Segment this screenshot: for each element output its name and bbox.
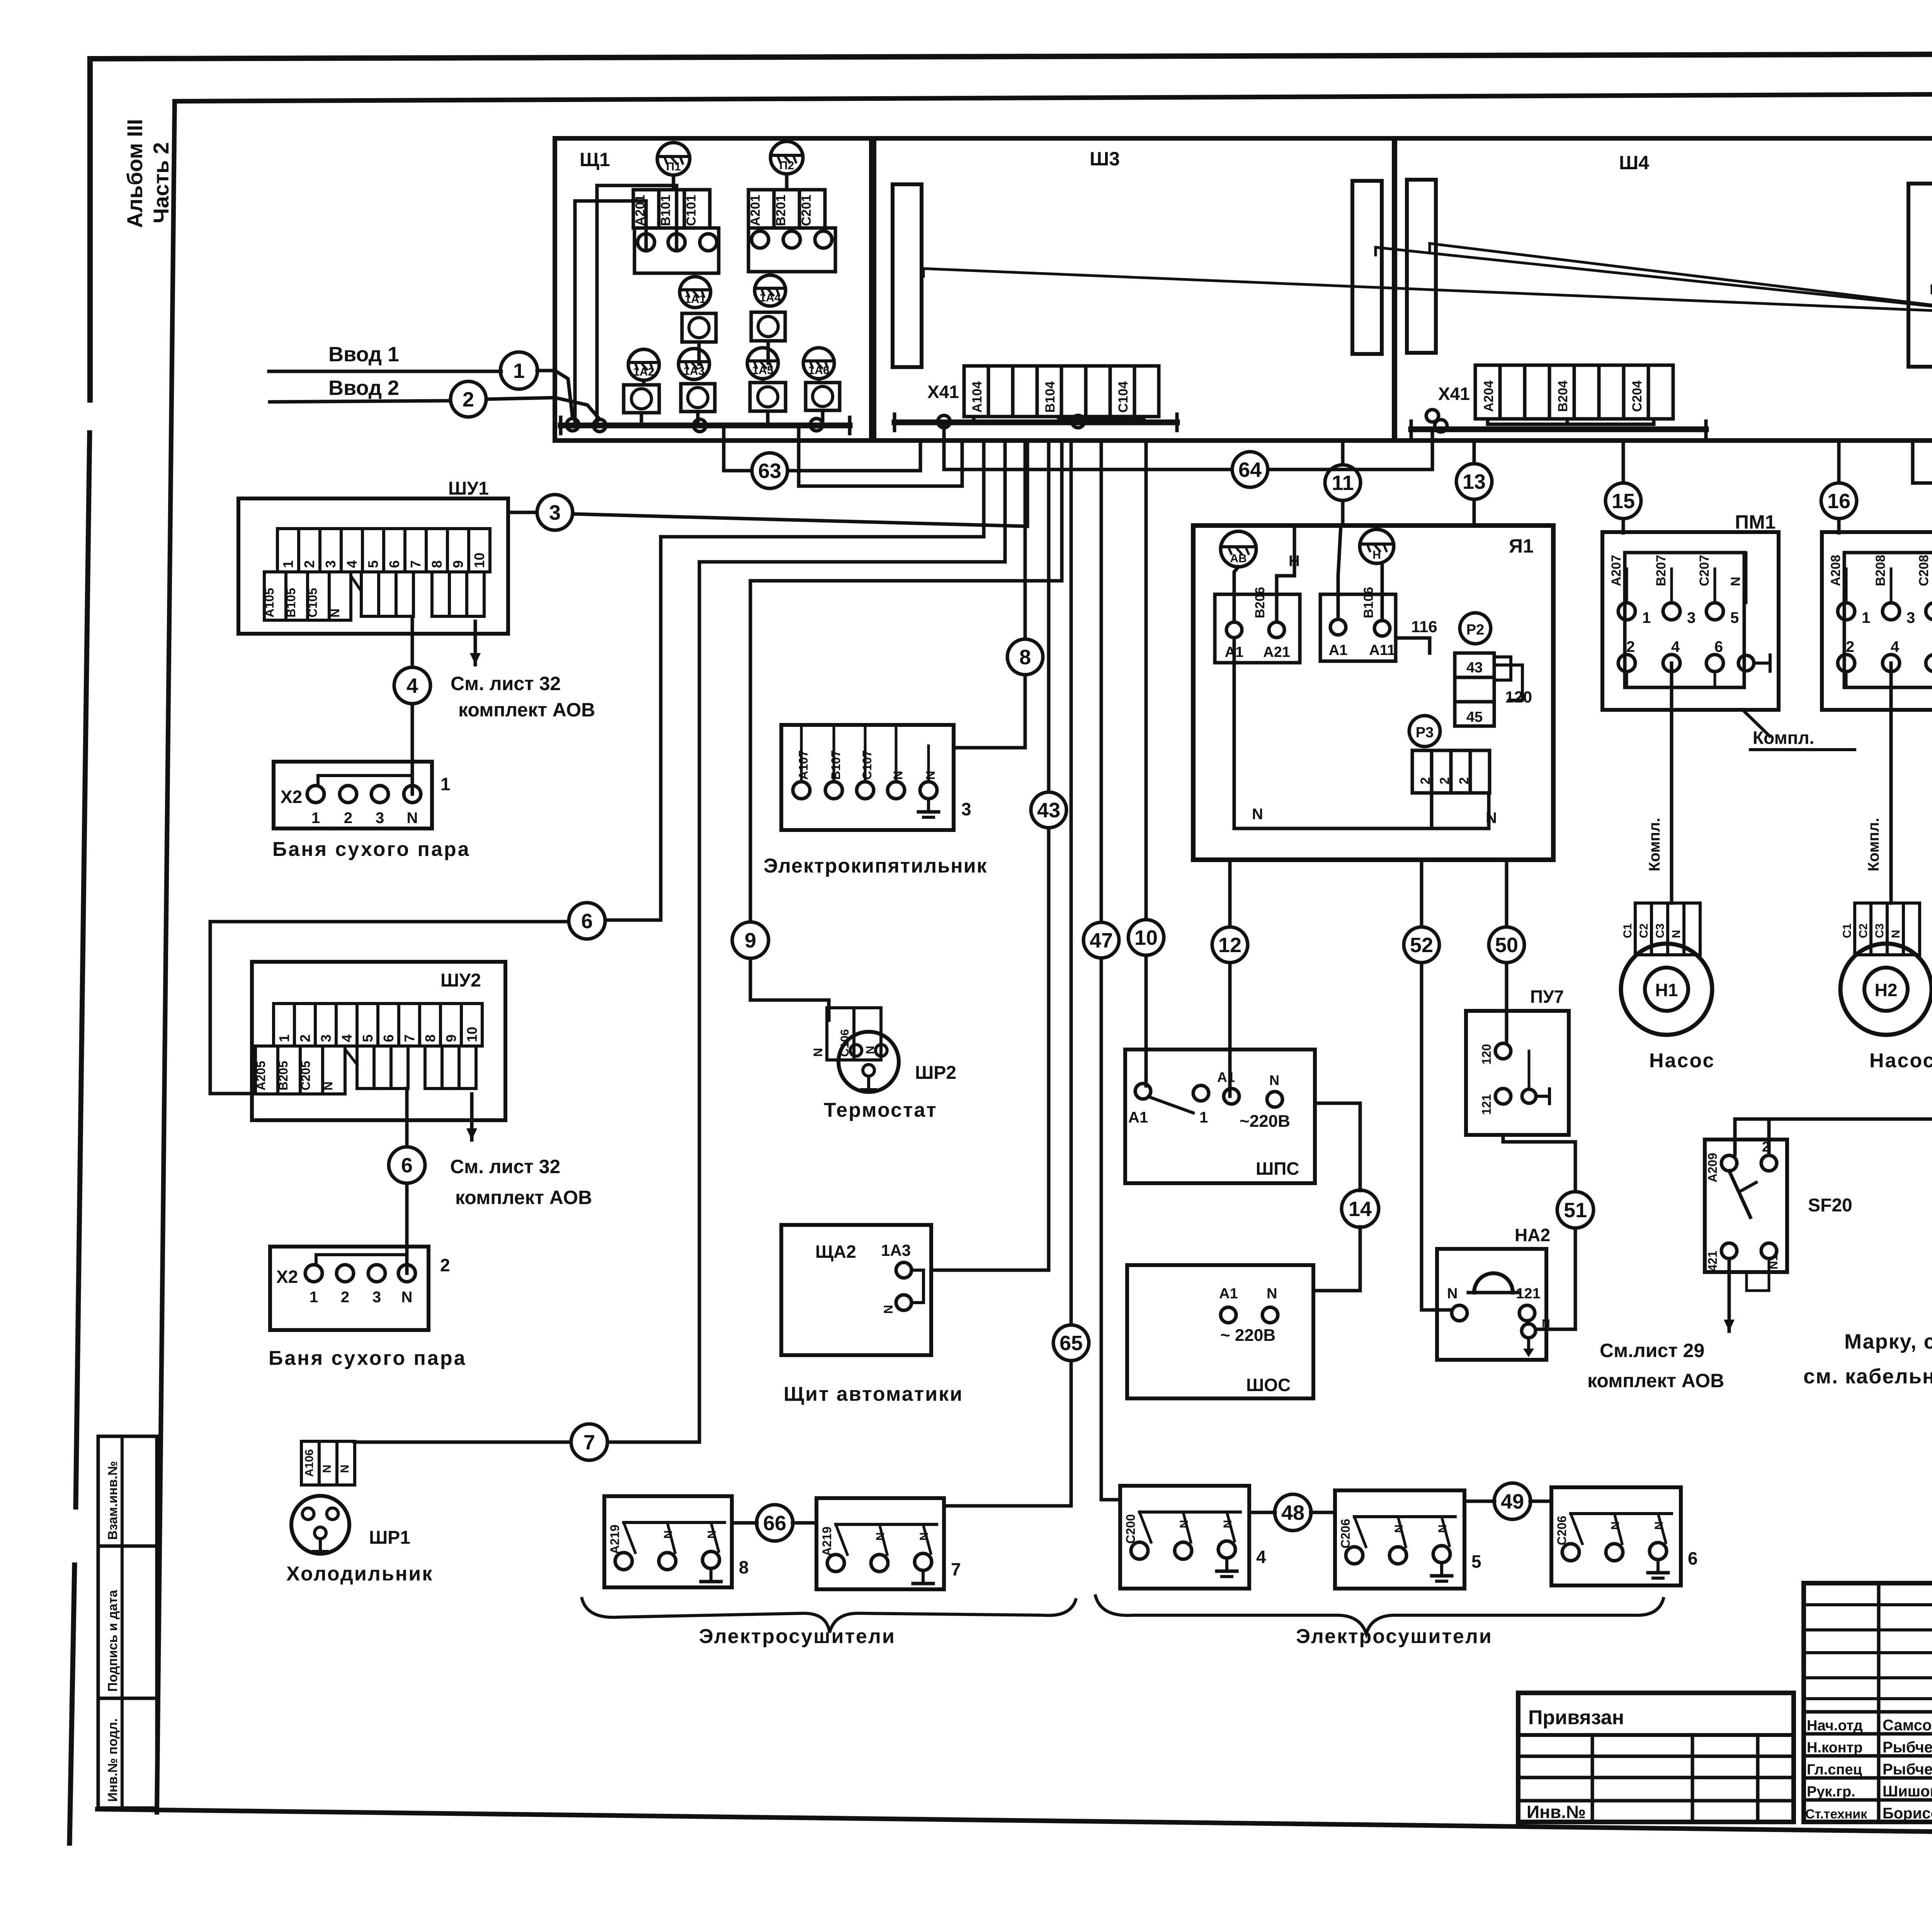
svg-text:Рыбченко: Рыбченко <box>1883 1739 1932 1756</box>
connector Х2 Баня-1 <box>274 762 451 828</box>
terminal block column right of Ш4 <box>1908 184 1932 367</box>
svg-text:2: 2 <box>1626 638 1635 655</box>
svg-text:комплект АОВ: комплект АОВ <box>455 1187 592 1208</box>
fuse 1А3 in Щ1 <box>679 349 709 379</box>
busbar N of Щ1 <box>561 417 850 434</box>
svg-text:В206: В206 <box>1253 587 1267 618</box>
svg-text:2: 2 <box>1457 777 1471 784</box>
svg-text:45: 45 <box>1466 709 1483 725</box>
dryer box 5 <box>1335 1490 1481 1589</box>
svg-text:А1: А1 <box>1217 1069 1235 1085</box>
svg-text:66: 66 <box>763 1512 786 1535</box>
note Марку сечение <box>1803 1330 1932 1388</box>
svg-text:Х41: Х41 <box>927 382 959 402</box>
svg-text:4: 4 <box>1256 1547 1266 1567</box>
connector Х2 Баня-2 <box>270 1247 450 1330</box>
cabinet ШПС box <box>1125 1050 1315 1183</box>
svg-text:Н.контр: Н.контр <box>1807 1740 1863 1756</box>
relay А2 square c <box>624 385 659 413</box>
trunk wire row 1 <box>661 441 984 537</box>
wire ШУ1 to trunk via marker 3 <box>508 441 1027 526</box>
wire Я1 to ШПС via marker 12 <box>1228 860 1232 1096</box>
cabinet ШУ2 enclosure <box>252 962 505 1120</box>
svg-text:3: 3 <box>318 1034 334 1042</box>
svg-text:1: 1 <box>513 359 525 383</box>
svg-text:11: 11 <box>1332 471 1354 495</box>
svg-text:см. кабельный журнал лист 12: см. кабельный журнал лист 12 <box>1803 1365 1932 1388</box>
wire drop to Я1 via 11 <box>1341 441 1345 526</box>
title signature table <box>1804 1583 1932 1822</box>
contactor block В106 in Я1 <box>1320 587 1396 661</box>
svg-text:Х2: Х2 <box>276 1267 298 1287</box>
wire ПУ7 to НА2 via marker 51 <box>1503 1135 1575 1329</box>
svg-text:52: 52 <box>1410 934 1433 957</box>
svg-text:1: 1 <box>1642 609 1651 626</box>
fuse 1А6 in Щ1 <box>803 348 834 379</box>
svg-text:С101: С101 <box>684 195 699 226</box>
wire SF20 down arrow <box>1724 1259 1769 1331</box>
svg-text:2: 2 <box>301 560 317 568</box>
svg-text:16: 16 <box>1827 490 1850 513</box>
svg-text:Щит автоматики: Щит автоматики <box>784 1383 963 1405</box>
svg-text:8: 8 <box>422 1034 438 1042</box>
svg-text:С201: С201 <box>799 195 814 226</box>
svg-text:7: 7 <box>408 560 423 568</box>
svg-text:2: 2 <box>1418 777 1433 784</box>
svg-text:Н2: Н2 <box>1875 980 1898 1000</box>
fuse 1А1 in Щ1 <box>680 277 711 308</box>
terminal strip С1 С2 С3 N of Н2 <box>1841 903 1920 955</box>
album note (rotated) Альбом III Часть 2 <box>122 119 173 228</box>
note См.лист 32 комплект АОВ (ШУ2) <box>450 1156 592 1208</box>
svg-text:9: 9 <box>443 1034 459 1042</box>
svg-text:А205: А205 <box>254 1061 268 1091</box>
wire drop to Я1 via 13 <box>1473 441 1476 526</box>
motor Н1 <box>1621 944 1712 1035</box>
dryer box 6 <box>1551 1487 1698 1585</box>
starter ПМ2 box <box>1822 511 1932 710</box>
svg-text:10: 10 <box>464 1027 480 1042</box>
svg-text:5: 5 <box>360 1034 376 1042</box>
breaker АВ in Я1 <box>1221 531 1256 567</box>
motor Н2 <box>1840 944 1932 1035</box>
svg-text:См. лист 32: См. лист 32 <box>451 673 561 694</box>
cable marker 14 <box>1342 1190 1379 1227</box>
label Щит автоматики <box>784 1383 963 1405</box>
wire ШЩ2 to ЕКВ via marker 17 <box>1913 441 1932 581</box>
fuse 1А2 in Щ1 <box>628 349 659 380</box>
relay А2 square d <box>681 384 715 412</box>
svg-text:7: 7 <box>951 1559 961 1579</box>
svg-text:С205: С205 <box>299 1061 313 1091</box>
svg-text:Привязан: Привязан <box>1528 1706 1624 1729</box>
terminal strip С1 С2 С3 N of Н1 <box>1621 903 1700 955</box>
svg-text:Ш3: Ш3 <box>1090 148 1120 170</box>
svg-text:N: N <box>401 1289 413 1306</box>
svg-text:Насос: Насос <box>1869 1050 1932 1072</box>
terminal block column left of Ш3 <box>893 184 922 367</box>
label Насос (2) <box>1869 1050 1932 1072</box>
terminal strip С106 N of ШР2 <box>811 1008 881 1060</box>
terminal block column right of Ш3 <box>1352 181 1382 354</box>
panel Ш4 enclosure <box>1395 138 1932 441</box>
cable marker 50 <box>1489 927 1524 963</box>
callout arrow См.лист 32 of ШУ1 <box>470 621 481 665</box>
svg-text:С104: С104 <box>1116 381 1131 413</box>
terminal strip 1-10 of ШУ1 <box>277 529 490 572</box>
svg-text:1: 1 <box>311 810 320 827</box>
svg-text:С206: С206 <box>1555 1516 1569 1546</box>
svg-text:N: N <box>923 771 937 780</box>
cable marker 47 <box>1083 922 1119 958</box>
wire jog b under Щ1 <box>799 425 962 486</box>
svg-text:А1: А1 <box>1329 642 1348 658</box>
svg-text:Самсонов: Самсонов <box>1883 1717 1932 1734</box>
automation panel ЩА2 box <box>781 1225 931 1355</box>
svg-text:N: N <box>1728 577 1743 586</box>
svg-text:1: 1 <box>276 1034 292 1042</box>
wire from Щ1 to marker 63 <box>724 425 920 471</box>
wire ПМ1 to насос Н1 <box>1646 663 1672 903</box>
callout Компл. of ПМ1 <box>1743 710 1855 750</box>
svg-text:9: 9 <box>450 560 466 568</box>
svg-text:А1: А1 <box>1219 1286 1238 1302</box>
svg-text:~ 220В: ~ 220В <box>1220 1326 1276 1345</box>
svg-text:N: N <box>1252 806 1263 823</box>
svg-text:N: N <box>1436 1524 1449 1533</box>
stamp box Подпись и дата <box>98 1546 157 1698</box>
svg-text:Р2: Р2 <box>1466 622 1484 638</box>
relay А2 square f <box>806 383 840 410</box>
svg-text:Марку, сечение и длину проводо: Марку, сечение и длину проводов и кабеле… <box>1844 1330 1932 1353</box>
label N left in Я1 <box>1252 806 1263 823</box>
wire ШУ1 to marker 4 <box>411 616 414 794</box>
cable marker 8 <box>1007 639 1043 675</box>
label 116 in Я1 <box>1411 617 1437 636</box>
svg-text:N: N <box>1221 1520 1234 1528</box>
svg-text:13: 13 <box>1463 470 1486 493</box>
svg-text:1: 1 <box>1199 1109 1208 1126</box>
svg-text:Взам.инв.№: Взам.инв.№ <box>105 1461 120 1540</box>
svg-text:АВ: АВ <box>1230 552 1247 565</box>
wire ШЩ2 to ПМ2 via marker 16 <box>1837 441 1841 533</box>
cable marker 52 <box>1404 927 1439 963</box>
relay Р2 in Я1 <box>1460 613 1491 644</box>
svg-text:А208: А208 <box>1828 555 1843 586</box>
svg-text:N: N <box>811 1048 825 1057</box>
panel Щ1 enclosure <box>555 138 871 441</box>
svg-text:Шишова: Шишова <box>1883 1783 1932 1800</box>
cable marker 66 <box>757 1505 793 1541</box>
svg-text:Ввод 1: Ввод 1 <box>328 343 399 366</box>
wire drop to ЩА2 via 43 <box>931 441 1049 1270</box>
svg-text:В105: В105 <box>284 588 298 618</box>
callout Клеммники см.лист 36 <box>923 243 1932 313</box>
fuse 1А4 in Щ1 <box>755 275 786 306</box>
cable marker 4 <box>394 667 430 704</box>
svg-text:8: 8 <box>739 1557 749 1577</box>
brace Электросушители group1 <box>582 1599 1076 1633</box>
svg-text:ШР1: ШР1 <box>369 1527 410 1548</box>
svg-text:5: 5 <box>1471 1551 1481 1572</box>
svg-text:4: 4 <box>1671 638 1680 655</box>
cabinet ШУ1 enclosure <box>238 478 508 634</box>
svg-text:65: 65 <box>1060 1332 1083 1355</box>
wires Х41 to busbar Ш3 <box>974 415 1144 428</box>
terminal strip Х41 of Ш4 <box>1438 365 1673 419</box>
svg-text:Электрокипятильник: Электрокипятильник <box>764 855 988 877</box>
cable marker 43 <box>1031 792 1066 828</box>
svg-text:N: N <box>1889 930 1902 938</box>
svg-text:Электросушители: Электросушители <box>1296 1625 1493 1648</box>
note См.лист 29 комплект АОВ (SF20) <box>1587 1340 1724 1391</box>
svg-text:Часть 2: Часть 2 <box>149 142 173 223</box>
callout arrow См.лист 32 of ШУ2 <box>466 1094 477 1140</box>
svg-text:14: 14 <box>1349 1197 1372 1221</box>
svg-text:120: 120 <box>1480 1044 1493 1065</box>
svg-text:1А4: 1А4 <box>759 291 781 304</box>
svg-text:В101: В101 <box>658 195 673 226</box>
cable marker 6 upper <box>569 903 605 939</box>
svg-text:2: 2 <box>463 388 474 411</box>
svg-text:Х41: Х41 <box>1438 384 1470 404</box>
lamp Н in Я1 <box>1360 529 1394 563</box>
svg-text:Насос: Насос <box>1649 1050 1715 1072</box>
svg-text:См.лист 29: См.лист 29 <box>1600 1340 1704 1361</box>
svg-text:Гл.спец: Гл.спец <box>1807 1762 1862 1778</box>
svg-text:N: N <box>321 1465 333 1473</box>
wires Я1 internal <box>1234 526 1522 828</box>
cable marker 48 <box>1275 1494 1311 1531</box>
cable marker 6 lower <box>389 1147 425 1183</box>
svg-text:421: 421 <box>1706 1251 1719 1271</box>
contactor block В206 in Я1 <box>1215 587 1300 663</box>
svg-text:N: N <box>407 810 418 827</box>
cable marker 63 <box>752 453 787 488</box>
svg-text:6: 6 <box>401 1154 413 1177</box>
svg-text:1: 1 <box>440 774 451 794</box>
svg-text:7: 7 <box>583 1431 595 1454</box>
cable marker 1 <box>500 352 537 389</box>
cable marker 15 <box>1605 483 1641 519</box>
wire Ввод1 <box>269 371 573 418</box>
fuse П1 in Щ1 <box>657 143 690 175</box>
label N right in Я1 <box>1486 810 1497 827</box>
svg-text:N: N <box>328 609 342 617</box>
svg-text:N: N <box>1269 1072 1279 1088</box>
svg-text:А204: А204 <box>1481 381 1496 412</box>
svg-text:2: 2 <box>1846 638 1854 655</box>
wire ШЩ2 to SF20 via marker 19 <box>1735 441 1932 1155</box>
cable marker 9 <box>732 922 769 958</box>
svg-text:63: 63 <box>758 459 781 483</box>
svg-text:64: 64 <box>1238 458 1262 481</box>
svg-text:С105: С105 <box>306 588 320 618</box>
svg-text:3: 3 <box>1687 609 1696 626</box>
svg-text:Компл.: Компл. <box>1753 728 1814 748</box>
svg-text:6: 6 <box>1688 1548 1698 1568</box>
trunk wire row 2 <box>699 441 1005 562</box>
svg-text:10: 10 <box>471 553 487 568</box>
wire drop to сушители-4 via 47 <box>1101 441 1120 1500</box>
svg-text:47: 47 <box>1090 929 1113 952</box>
panel Ш3 enclosure <box>874 138 1394 441</box>
svg-text:Нач.отд: Нач.отд <box>1807 1718 1863 1734</box>
svg-text:6: 6 <box>581 910 593 933</box>
cable marker 13 <box>1456 464 1492 499</box>
note См.лист 32 комплект АОВ (ШУ1) <box>451 673 595 721</box>
relay Р3 in Я1 <box>1409 716 1440 747</box>
svg-text:~220В: ~220В <box>1240 1112 1290 1131</box>
svg-text:5: 5 <box>1730 609 1739 626</box>
cable marker 16 <box>1821 483 1857 519</box>
svg-text:С2: С2 <box>1638 924 1650 938</box>
svg-text:SF20: SF20 <box>1808 1195 1852 1216</box>
svg-text:ШПС: ШПС <box>1256 1158 1299 1179</box>
boiler Электрокипятильник box <box>781 725 971 830</box>
wire marker 14 ШПС to ШОС <box>1313 1103 1360 1291</box>
dryer box 8 <box>604 1496 749 1587</box>
wires Щ1 internal <box>575 174 823 425</box>
wire drop to Электрокипятильник via 8 <box>954 441 1025 748</box>
svg-text:А21: А21 <box>1263 644 1290 660</box>
terminal block column left of Ш4 <box>1407 180 1436 353</box>
svg-text:Термостат: Термостат <box>824 1099 937 1121</box>
svg-text:N: N <box>1653 1521 1665 1530</box>
svg-text:2: 2 <box>344 810 352 827</box>
brace Электросушители group2 <box>1095 1596 1663 1634</box>
terminal strip А205 В205 С205 N of ШУ2 <box>254 1046 476 1094</box>
fuse П2 in Щ1 <box>770 141 803 174</box>
cable marker 10 <box>1128 920 1164 955</box>
wire trunk to ШР1 via marker 7 <box>354 562 699 1442</box>
svg-text:1А3: 1А3 <box>683 365 704 378</box>
svg-text:А209: А209 <box>1706 1153 1719 1183</box>
svg-text:N: N <box>706 1530 718 1539</box>
wire drop to ШПС via 10 <box>1145 441 1148 1086</box>
cable marker 2 <box>451 381 486 417</box>
svg-text:50: 50 <box>1495 934 1518 957</box>
cable marker 7 <box>571 1424 607 1460</box>
svg-text:2: 2 <box>341 1289 349 1306</box>
svg-text:1: 1 <box>1862 609 1870 626</box>
title table Привязан <box>1518 1693 1794 1822</box>
svg-text:Борисова: Борисова <box>1883 1805 1932 1822</box>
relay А2 square e <box>750 383 786 411</box>
wire trunk to ШР2 via marker 9 <box>750 581 829 1020</box>
svg-text:В207: В207 <box>1654 555 1668 586</box>
svg-text:1: 1 <box>280 560 296 568</box>
bell НА2 box <box>1437 1225 1550 1360</box>
svg-text:7: 7 <box>401 1034 417 1042</box>
svg-text:Щ1: Щ1 <box>580 149 610 170</box>
label Н wire in Я1 <box>1289 553 1300 570</box>
svg-text:12: 12 <box>1218 934 1242 957</box>
svg-text:Компл.: Компл. <box>1865 818 1882 871</box>
label Электросушители (2) <box>1296 1625 1493 1648</box>
breaker group 2 terminals А201 В201 С201 <box>748 190 835 272</box>
svg-text:6: 6 <box>381 1034 396 1042</box>
svg-text:Баня сухого пара: Баня сухого пара <box>269 1347 467 1369</box>
svg-text:В106: В106 <box>1361 587 1376 618</box>
svg-text:ПУ7: ПУ7 <box>1530 987 1564 1007</box>
svg-text:С200: С200 <box>1124 1514 1138 1544</box>
svg-text:Н: Н <box>1372 549 1381 561</box>
svg-text:121: 121 <box>1516 1286 1540 1302</box>
svg-text:N: N <box>321 1082 335 1090</box>
cable marker 65 <box>1053 1325 1089 1361</box>
svg-text:1А3: 1А3 <box>881 1241 911 1259</box>
wire from Ш3 busbar to marker 64 <box>944 422 1432 469</box>
svg-text:Рук.гр.: Рук.гр. <box>1807 1784 1855 1800</box>
dryer box 4 <box>1120 1486 1266 1589</box>
svg-text:43: 43 <box>1466 660 1483 676</box>
svg-text:43: 43 <box>1037 799 1060 822</box>
stamp box Взам.инв.№ <box>98 1436 157 1546</box>
cable marker 49 <box>1494 1483 1531 1519</box>
svg-text:1А6: 1А6 <box>808 364 829 377</box>
cable marker 3 <box>537 495 573 530</box>
wire ШЩ2 to ПМ1 via marker 15 <box>1622 441 1625 533</box>
svg-text:N: N <box>1542 1317 1550 1330</box>
svg-text:Рыбченко: Рыбченко <box>1883 1761 1932 1778</box>
svg-text:С2: С2 <box>1857 924 1870 938</box>
svg-text:А106: А106 <box>303 1449 316 1477</box>
svg-text:3: 3 <box>961 799 971 819</box>
label Насос (1) <box>1649 1050 1715 1072</box>
svg-text:А219: А219 <box>820 1527 834 1556</box>
label Баня сухого пара (1) <box>272 838 471 861</box>
svg-text:3: 3 <box>1906 609 1915 626</box>
svg-text:6: 6 <box>386 560 402 568</box>
svg-text:П2: П2 <box>779 159 794 172</box>
svg-text:1А5: 1А5 <box>752 364 773 377</box>
svg-text:N: N <box>1267 1286 1277 1302</box>
svg-text:9: 9 <box>745 929 756 952</box>
svg-text:Х2: Х2 <box>281 787 302 807</box>
svg-text:Холодильник: Холодильник <box>286 1563 433 1585</box>
svg-text:С1: С1 <box>1621 924 1634 938</box>
svg-text:121: 121 <box>1480 1094 1493 1115</box>
label Холодильник <box>286 1563 433 1585</box>
svg-text:1: 1 <box>310 1289 318 1306</box>
svg-text:4: 4 <box>339 1034 355 1042</box>
svg-text:А11: А11 <box>1369 642 1395 658</box>
terminal stack 43 45 in Я1 <box>1455 653 1532 726</box>
svg-text:В204: В204 <box>1556 381 1570 412</box>
wire dryer 4 to 48 to 5 <box>1249 1511 1335 1514</box>
svg-text:комплект АОВ: комплект АОВ <box>458 699 595 721</box>
svg-text:48: 48 <box>1281 1501 1304 1524</box>
svg-text:3: 3 <box>376 810 384 827</box>
terminal strip Х41 of Ш3 <box>927 366 1159 417</box>
svg-text:4: 4 <box>1891 638 1900 655</box>
svg-text:В201: В201 <box>774 195 788 226</box>
terminal strip А105 В105 С105 N of ШУ1 <box>262 572 484 620</box>
svg-text:Н1: Н1 <box>1655 980 1678 1000</box>
svg-text:А201: А201 <box>748 195 763 226</box>
svg-text:2: 2 <box>297 1034 313 1042</box>
dryer box 7 <box>816 1498 961 1589</box>
svg-text:комплект АОВ: комплект АОВ <box>1587 1370 1724 1391</box>
circuit breaker SF20 <box>1705 1139 1852 1272</box>
svg-text:4: 4 <box>406 674 418 697</box>
label Ввод1 <box>328 343 399 366</box>
svg-text:1А1: 1А1 <box>684 293 706 306</box>
wire Я1 to ПУ7 via marker 50 <box>1505 860 1509 1042</box>
svg-text:Р3: Р3 <box>1416 725 1434 741</box>
svg-text:НА2: НА2 <box>1515 1225 1550 1245</box>
